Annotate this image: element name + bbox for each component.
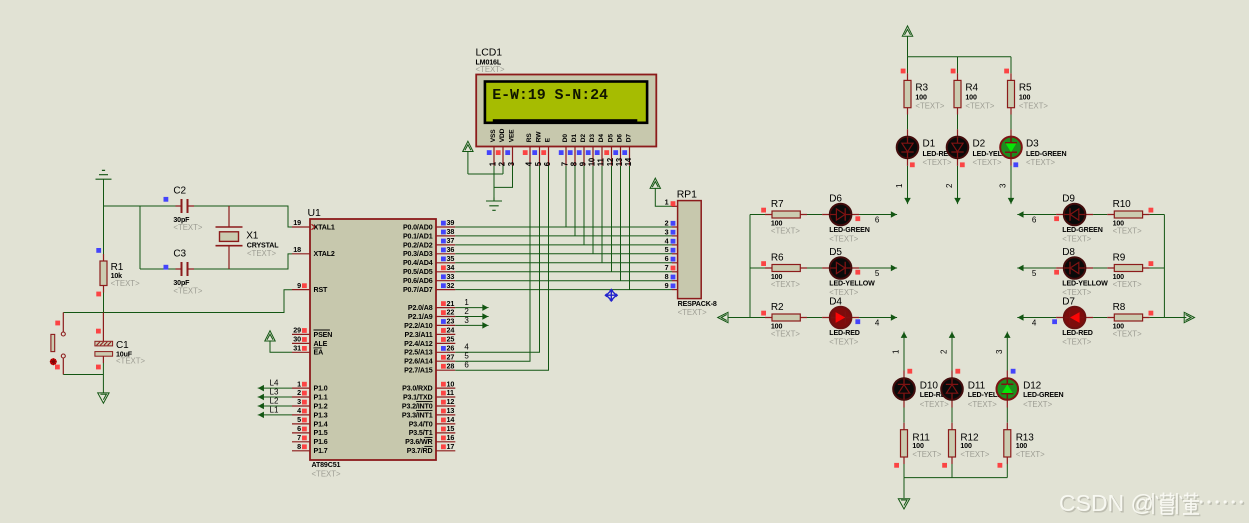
marker D11 <box>955 369 960 374</box>
U1 pin label PSEN overline <box>314 329 330 331</box>
net arrow 5 left <box>1017 266 1023 271</box>
svg-text:P0.6/AD6: P0.6/AD6 <box>403 277 433 285</box>
svg-text:<TEXT>: <TEXT> <box>923 158 952 167</box>
wire D7 to R8 <box>1093 317 1107 319</box>
marker C1 bottom red <box>96 365 101 370</box>
U1 pin 15 P3.5/T1 stub <box>436 432 455 434</box>
svg-text:D10: D10 <box>920 381 939 392</box>
U1 pin 25 P2.4/A12 stub <box>436 342 455 344</box>
LCD pin 13 D6 stub <box>620 147 622 166</box>
svg-text:RW: RW <box>536 131 543 143</box>
svg-text:4: 4 <box>665 236 669 245</box>
U1 pin 24 marker <box>441 328 446 333</box>
resistor R7 pins <box>765 214 807 216</box>
wire R9 to vertical <box>1150 267 1165 269</box>
net arrow L4 <box>258 386 264 391</box>
svg-text:2: 2 <box>945 183 954 188</box>
svg-text:1: 1 <box>892 349 901 354</box>
RP1 pin 8 stub <box>672 280 678 282</box>
marker R13 red <box>998 463 1003 468</box>
svg-text:<TEXT>: <TEXT> <box>973 158 1002 167</box>
svg-text:22: 22 <box>447 308 455 317</box>
RP1 pin 5 stub <box>672 253 678 255</box>
svg-text:L2: L2 <box>270 397 279 406</box>
U1 pin label P3.2/INT0 overline <box>416 401 432 403</box>
svg-text:D7: D7 <box>1062 297 1075 308</box>
svg-text:<TEXT>: <TEXT> <box>912 450 941 459</box>
U1 pin 22 marker <box>441 310 446 315</box>
svg-text:34: 34 <box>447 263 455 272</box>
svg-text:CSDN @: CSDN @ <box>1059 490 1154 516</box>
led D8 LED-YELLOW <box>1064 257 1086 279</box>
U1 pin 28 P2.7/A15 stub <box>436 369 455 371</box>
LCD pin 2 marker <box>496 150 501 155</box>
wire LCD D5 drop <box>611 166 613 272</box>
svg-text:R9: R9 <box>1113 253 1126 264</box>
LCD pin 9 D2 stub <box>583 147 585 166</box>
wire R5 to D3 <box>1010 115 1012 130</box>
svg-text:100: 100 <box>965 94 977 102</box>
marker R11 red <box>894 463 899 468</box>
U1 pin 11 P3.1/TXD stub <box>436 396 455 398</box>
LCD pin 13 marker <box>613 150 618 155</box>
U1 pin 13 marker <box>441 409 446 414</box>
svg-text:5: 5 <box>297 415 301 424</box>
svg-text:<TEXT>: <TEXT> <box>915 101 944 110</box>
crystal X1 pins <box>228 206 230 269</box>
wire R6 row left <box>750 267 765 269</box>
led D9 LED-GREEN <box>1064 204 1086 226</box>
wire right group vertical <box>1163 215 1165 318</box>
svg-text:D11: D11 <box>968 381 986 392</box>
RP1 pin 7 marker <box>671 266 676 271</box>
svg-text:<TEXT>: <TEXT> <box>920 400 949 409</box>
svg-text:P2.6/A14: P2.6/A14 <box>404 358 433 366</box>
svg-text:RESPACK-8: RESPACK-8 <box>678 300 717 308</box>
wire P0.5 bus row <box>455 271 672 273</box>
resistor R4 <box>954 80 961 107</box>
LCD pin 8 marker <box>568 150 573 155</box>
svg-text:D8: D8 <box>1062 247 1075 258</box>
power terminal at RP1 <box>650 178 660 188</box>
capacitor C1 top pin <box>102 313 104 342</box>
resistor R7 <box>772 211 800 218</box>
U1 pin 9 marker <box>302 283 307 288</box>
wire rail to R3 <box>907 57 909 74</box>
RP1 pin 7 stub <box>672 271 678 273</box>
svg-text:<TEXT>: <TEXT> <box>116 356 145 365</box>
net arrow 6 left <box>1017 212 1023 217</box>
led D2 pins <box>957 129 959 166</box>
U1 pin 6 marker <box>302 427 307 432</box>
RP1 pin 9 stub <box>672 289 678 291</box>
led D1 pins <box>907 129 909 166</box>
U1 pin 13 P3.3/INT1 stub <box>436 414 455 416</box>
svg-text:11: 11 <box>447 388 455 397</box>
U1 pin 24 P2.3/A11 stub <box>436 333 455 335</box>
RP1 pin 4 marker <box>671 239 676 244</box>
svg-text:2: 2 <box>940 349 949 354</box>
LCD pin 4 marker <box>523 150 528 155</box>
wire left group vertical <box>749 215 751 318</box>
RP1 pin 1 stub <box>672 205 678 207</box>
svg-text:37: 37 <box>447 236 455 245</box>
svg-text:<TEXT>: <TEXT> <box>1019 101 1048 110</box>
svg-text:P0.7/AD7: P0.7/AD7 <box>403 286 433 294</box>
led D7 pins <box>1056 317 1093 319</box>
svg-text:P2.4/A12: P2.4/A12 <box>404 340 433 348</box>
marker R10 red <box>1149 208 1154 213</box>
resistor R9 <box>1114 265 1142 272</box>
wire net 3 from P2 <box>455 324 487 326</box>
svg-text:LED-RED: LED-RED <box>1062 329 1093 337</box>
svg-text:P0.5/AD5: P0.5/AD5 <box>403 268 433 276</box>
marker D5 <box>855 270 860 275</box>
LCD pin 3 marker <box>505 150 510 155</box>
net arrow 2 <box>483 314 489 319</box>
U1 pin 6 P1.5 stub <box>292 432 310 434</box>
U1 pin 7 P1.6 stub <box>292 441 310 443</box>
svg-text:P2.0/A8: P2.0/A8 <box>408 304 433 312</box>
wire bottom bus <box>904 477 1007 479</box>
wire LCD D3 drop <box>592 166 594 254</box>
resistor R3 pins <box>907 73 909 114</box>
svg-text:P0.4/AD4: P0.4/AD4 <box>403 259 433 267</box>
U1 pin 35 P0.4/AD4 stub <box>436 262 455 264</box>
led D3 pins <box>1010 129 1012 166</box>
wire R3 to D1 <box>907 115 909 130</box>
wire net 5 to D8 <box>1019 267 1056 269</box>
svg-text:<TEXT>: <TEXT> <box>173 223 202 232</box>
resistor R13 pins <box>1006 423 1008 464</box>
capacitor C3 pins <box>176 268 195 270</box>
svg-text:D3: D3 <box>1026 139 1039 150</box>
wire LCD D4 drop <box>601 166 603 263</box>
wire net L4 <box>259 387 292 389</box>
U1 pin 35 marker <box>441 257 446 262</box>
resistor R2 pins <box>765 317 807 319</box>
wire net 4 to D7 <box>1019 317 1056 319</box>
U1 pin 29 PSEN stub <box>292 333 310 335</box>
svg-text:P2.5/A13: P2.5/A13 <box>404 349 433 357</box>
wire D9 to R10 <box>1093 214 1107 216</box>
ground top-left (inverted) <box>96 170 112 179</box>
resistor R5 pins <box>1010 73 1012 114</box>
svg-text:P3.6/WR: P3.6/WR <box>405 438 432 446</box>
U1 pin 17 marker <box>441 444 446 449</box>
led D4 LED-RED <box>830 307 852 329</box>
svg-text:LED-GREEN: LED-GREEN <box>829 226 869 234</box>
LCD pin 6 marker <box>541 150 546 155</box>
svg-text:21: 21 <box>447 299 455 308</box>
U1 pin 31 marker <box>302 346 307 351</box>
svg-text:39: 39 <box>447 218 455 227</box>
svg-text:U1: U1 <box>308 207 321 219</box>
U1 pin 16 P3.6/WR stub <box>436 441 455 443</box>
U1 pin 34 marker <box>441 265 446 270</box>
U1 pin 26 marker <box>441 346 446 351</box>
U1 pin 36 P0.3/AD3 stub <box>436 253 455 255</box>
crystal X1 <box>216 227 243 246</box>
LCD pin 14 marker <box>622 150 627 155</box>
RP1 pin 6 marker <box>671 257 676 262</box>
wire net 3 to D12 <box>1006 333 1008 370</box>
wire R2 to D4 <box>807 317 822 319</box>
RP1 pin 8 marker <box>671 275 676 280</box>
net arrow 4 right <box>891 315 897 320</box>
svg-text:31: 31 <box>293 344 301 353</box>
U1 pin 5 P1.4 stub <box>292 423 310 425</box>
svg-text:100: 100 <box>1016 442 1028 450</box>
net arrow L3 <box>258 395 264 400</box>
resistor R11 <box>901 430 908 457</box>
svg-text:R7: R7 <box>771 199 784 210</box>
wire C1 to ground terminal <box>102 363 104 393</box>
U1 pin 38 P0.1/AD1 stub <box>436 235 455 237</box>
LCD pin 10 D3 stub <box>592 147 594 166</box>
U1 pin 2 marker <box>302 391 307 396</box>
svg-text:15: 15 <box>447 424 455 433</box>
led D2 LED-YELLOW <box>947 137 969 159</box>
U1 pin 27 marker <box>441 355 446 360</box>
svg-text:5: 5 <box>665 245 669 254</box>
marker R8 red <box>1149 311 1154 316</box>
terminal left arrow <box>718 312 728 322</box>
svg-text:18: 18 <box>293 245 301 254</box>
svg-text:35: 35 <box>447 254 455 263</box>
svg-text:10: 10 <box>587 157 596 166</box>
svg-text:AT89C51: AT89C51 <box>312 461 341 469</box>
capacitor C1 bottom pin <box>102 356 104 363</box>
svg-text:P0.3/AD3: P0.3/AD3 <box>403 250 433 258</box>
svg-text:9: 9 <box>665 281 669 290</box>
net arrow L1 <box>258 412 264 417</box>
U1 pin label P3.6/WR overline <box>424 436 432 438</box>
U1 pin 26 P2.5/A13 stub <box>436 351 455 353</box>
LCD pin 2 VDD stub <box>502 147 504 166</box>
RP1 pin 2 stub <box>672 226 678 228</box>
svg-text:R8: R8 <box>1113 302 1126 313</box>
resistor R11 pins <box>903 423 905 464</box>
LCD pin 5 marker <box>532 150 537 155</box>
svg-text:R6: R6 <box>771 253 784 264</box>
wire D6 to net 6 <box>859 214 895 216</box>
marker R4 red <box>951 69 956 74</box>
LCD pin 12 marker <box>604 150 609 155</box>
LCD pin 9 marker <box>577 150 582 155</box>
svg-text:2: 2 <box>464 307 469 316</box>
svg-text:D12: D12 <box>1023 381 1042 392</box>
svg-text:4: 4 <box>875 319 880 328</box>
wire VSS down <box>493 166 495 201</box>
svg-text:P2.1/A9: P2.1/A9 <box>408 313 433 321</box>
led D12 pins <box>1006 371 1008 408</box>
svg-text:3: 3 <box>464 316 469 325</box>
svg-text:C3: C3 <box>173 248 186 259</box>
marker D8 <box>1054 270 1059 275</box>
svg-text:<TEXT>: <TEXT> <box>1113 280 1142 289</box>
respack RP1 body <box>678 201 702 299</box>
U1 pin 38 marker <box>441 230 446 235</box>
LCD pin 11 D4 stub <box>601 147 603 166</box>
net arrow 3 down <box>1009 198 1014 204</box>
LCD pin 3 VEE stub <box>512 147 514 166</box>
svg-text:P1.2: P1.2 <box>314 402 328 410</box>
svg-text:D0: D0 <box>562 134 569 143</box>
net arrow 4 left <box>1017 315 1023 320</box>
wire R1 bottom to RST row <box>103 293 105 313</box>
net arrow 3 <box>483 323 489 328</box>
svg-text:D6: D6 <box>617 134 624 143</box>
U1 pin 39 marker <box>441 221 446 226</box>
svg-text:<TEXT>: <TEXT> <box>678 308 707 317</box>
U1 pin 32 marker <box>441 283 446 288</box>
svg-text:P2.3/A11: P2.3/A11 <box>405 331 433 339</box>
LCD pin 4 RS stub <box>529 147 531 166</box>
svg-text:6: 6 <box>875 216 880 225</box>
wire power to VDD <box>468 152 503 175</box>
wire R13 to bus <box>1006 464 1008 478</box>
svg-text:100: 100 <box>1019 94 1031 102</box>
button pressed indicator <box>50 358 57 365</box>
wire R10 to vertical <box>1150 214 1165 216</box>
RP1 pin 5 marker <box>671 248 676 253</box>
wire ground to R1 and RST net vertical <box>103 179 105 254</box>
U1 pin 37 P0.2/AD2 stub <box>436 244 455 246</box>
svg-text:P3.7/RD: P3.7/RD <box>407 447 433 455</box>
svg-text:3: 3 <box>999 183 1008 188</box>
svg-text:L1: L1 <box>270 406 279 415</box>
svg-text:P0.0/AD0: P0.0/AD0 <box>403 223 433 231</box>
svg-text:R2: R2 <box>771 302 784 313</box>
LCD pin 6 E stub <box>548 147 550 166</box>
wire bus to ground <box>903 478 905 498</box>
svg-text:100: 100 <box>912 442 924 450</box>
svg-text:<TEXT>: <TEXT> <box>1113 227 1142 236</box>
svg-text:ALE: ALE <box>314 340 328 348</box>
marker button bottom red <box>55 365 60 370</box>
U1 pin 25 marker <box>441 337 446 342</box>
U1 pin 34 P0.5/AD5 stub <box>436 271 455 273</box>
LCD pin 1 marker <box>487 150 492 155</box>
net arrow 6 right <box>891 212 897 217</box>
svg-text:1: 1 <box>297 379 301 388</box>
button bottom pin <box>62 358 64 374</box>
marker R7 red <box>761 208 766 213</box>
capacitor C2 pins <box>176 205 195 207</box>
wire net 6 to D9 <box>1019 214 1056 216</box>
U1 pin 23 P2.2/A10 stub <box>436 324 455 326</box>
svg-text:<TEXT>: <TEXT> <box>1062 338 1091 347</box>
svg-text:<TEXT>: <TEXT> <box>1113 330 1142 339</box>
svg-text:<TEXT>: <TEXT> <box>1023 400 1052 409</box>
svg-text:4: 4 <box>1032 319 1037 328</box>
resistor R8 pins <box>1107 317 1149 319</box>
svg-text:P2.7/A15: P2.7/A15 <box>404 367 433 375</box>
svg-text:P1.0: P1.0 <box>314 385 328 393</box>
U1 pin 8 P1.7 stub <box>292 450 310 452</box>
svg-text:<TEXT>: <TEXT> <box>1062 235 1091 244</box>
power terminal at EA <box>265 331 275 341</box>
wire C2/C3 left join vertical <box>139 206 141 269</box>
wire rail to R5 <box>1010 57 1012 74</box>
svg-text:8: 8 <box>665 272 669 281</box>
marker R12 red <box>942 463 947 468</box>
LCD pin 14 D7 stub <box>629 147 631 166</box>
svg-text:EA: EA <box>314 349 324 357</box>
wire R2 row left <box>728 317 765 319</box>
svg-text:PSEN: PSEN <box>314 331 333 339</box>
wire D4 to net 4 <box>859 317 895 319</box>
svg-text:P1.5: P1.5 <box>314 429 328 437</box>
wire P0.3 bus row <box>455 253 672 255</box>
svg-text:LED-GREEN: LED-GREEN <box>1026 150 1066 158</box>
svg-text:100: 100 <box>960 442 972 450</box>
marker D4 <box>855 319 860 324</box>
U1 pin 5 marker <box>302 418 307 423</box>
svg-text:R4: R4 <box>965 83 978 94</box>
svg-text:<TEXT>: <TEXT> <box>771 227 800 236</box>
resistor R13 <box>1004 430 1011 457</box>
wire LCD D6 drop <box>620 166 622 281</box>
svg-text:32: 32 <box>447 281 455 290</box>
svg-text:<TEXT>: <TEXT> <box>829 338 858 347</box>
svg-text:1: 1 <box>895 183 904 188</box>
svg-text:C1: C1 <box>116 340 129 351</box>
U1 pin 18 XTAL2 stub <box>292 253 310 255</box>
svg-text:D7: D7 <box>626 134 633 143</box>
led D11 LED-YELLOW <box>941 378 963 400</box>
net arrow 1 up <box>902 332 907 338</box>
svg-text:<TEXT>: <TEXT> <box>247 249 276 258</box>
wire C3 row left <box>140 268 176 270</box>
wire C2 to XTAL1 pin <box>194 206 292 227</box>
RP1 pin 6 stub <box>672 262 678 264</box>
wire VEE to VSS <box>494 166 513 188</box>
wire power to RP1 pin 1 <box>655 188 672 206</box>
wire D8 to R9 <box>1093 267 1107 269</box>
LCD pin 12 D5 stub <box>611 147 613 166</box>
wire D3 to net 3 <box>1010 166 1012 203</box>
ground under LCD <box>486 198 502 211</box>
svg-text:P3.4/T0: P3.4/T0 <box>409 420 433 428</box>
svg-text:29: 29 <box>293 326 301 335</box>
RP1 pin 1 marker <box>671 201 676 206</box>
wire P0.1 bus row <box>455 235 672 237</box>
wire net 2 from P2 <box>455 316 487 318</box>
svg-text:D4: D4 <box>829 297 842 308</box>
resistor R6 <box>772 265 800 272</box>
svg-text:P1.4: P1.4 <box>314 420 328 428</box>
U1 pin 28 marker <box>441 364 446 369</box>
wire R4 to D2 <box>957 115 959 130</box>
LCD pin 1 VSS stub <box>493 147 495 166</box>
U1 pin 30 marker <box>302 337 307 342</box>
RP1 pin 4 stub <box>672 244 678 246</box>
wire net L2 <box>259 405 292 407</box>
LCD pin 7 marker <box>559 150 564 155</box>
svg-text:<TEXT>: <TEXT> <box>476 65 505 74</box>
capacitor C1 plus plate <box>95 341 113 346</box>
svg-text:XTAL2: XTAL2 <box>314 250 335 258</box>
marker C2 blue <box>164 197 169 202</box>
svg-text:6: 6 <box>665 254 669 263</box>
wire R12 to bus <box>951 464 953 478</box>
svg-text:<TEXT>: <TEXT> <box>1026 158 1055 167</box>
svg-text:P0.1/AD1: P0.1/AD1 <box>403 232 433 240</box>
svg-text:28: 28 <box>447 361 455 370</box>
svg-text:P3.0/RXD: P3.0/RXD <box>402 385 432 393</box>
